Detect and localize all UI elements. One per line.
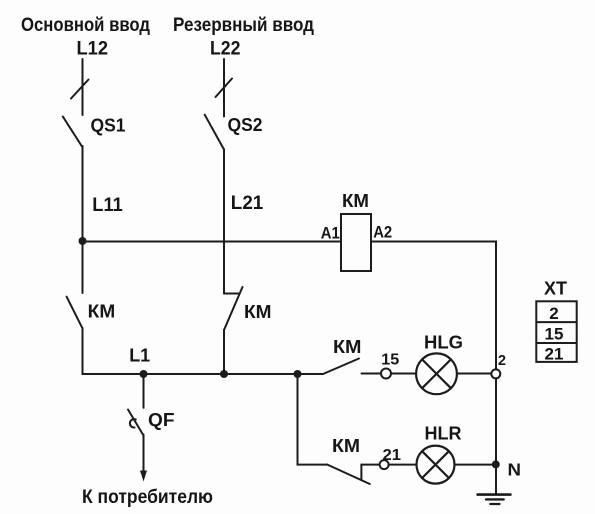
svg-text:2: 2 (549, 304, 558, 323)
coil KM (341, 214, 371, 271)
break mark on L12 (71, 80, 89, 99)
svg-text:N: N (508, 460, 522, 480)
svg-text:21: 21 (545, 344, 564, 363)
svg-text:L11: L11 (92, 195, 123, 216)
wire to terminal 15 (362, 373, 382, 375)
wire right rail below terminal 2 (495, 378, 497, 494)
wire lamp HLR to node N (455, 464, 497, 466)
node junction bus / lamp branch (294, 370, 302, 378)
wire coil feed A1 (83, 241, 342, 243)
contact KM (HLG, NO) blade (323, 359, 359, 375)
svg-text:А1: А1 (321, 223, 340, 242)
wire HLR feed (298, 464, 328, 466)
wire L21 (223, 150, 225, 294)
breaker QF hook (130, 419, 136, 427)
lamp HLR (417, 446, 455, 484)
node junction L1 / QF (140, 370, 148, 378)
wire lamp branch down (297, 374, 299, 465)
wire QF lower (143, 435, 145, 472)
svg-text:QS1: QS1 (91, 114, 126, 135)
svg-text:ХТ: ХТ (544, 279, 567, 299)
wire L22 lead (223, 59, 225, 117)
node N junction (492, 460, 500, 468)
switch QS2 blade (205, 115, 224, 150)
contact KM (HLR, NC) blade (327, 465, 369, 484)
svg-text:К потребителю: К потребителю (82, 486, 213, 508)
wire L11 (82, 146, 84, 293)
svg-text:КМ: КМ (88, 302, 116, 322)
lamp HLG (416, 353, 457, 394)
svg-text:L1: L1 (129, 345, 150, 366)
wire coil A2 to right rail (371, 242, 496, 370)
contact KM (HLR, NC) fixed bar (360, 465, 362, 480)
svg-text:КМ: КМ (333, 337, 362, 357)
arrow to consumer (140, 471, 147, 482)
svg-text:L21: L21 (231, 193, 264, 214)
terminal 15 circle (381, 369, 391, 379)
svg-text:15: 15 (545, 325, 564, 344)
break mark on L22 (216, 79, 233, 98)
switch QS1 blade (63, 117, 82, 147)
node junction L1 bus / middle branch (220, 370, 228, 378)
terminal 21 circle (380, 460, 389, 469)
wire terminal 15 to lamp (391, 373, 416, 375)
svg-text:L12: L12 (77, 38, 109, 60)
contact KM (left, NO) blade (67, 297, 83, 329)
wire QF upper (143, 374, 145, 408)
svg-text:2: 2 (498, 353, 506, 369)
contact KM (middle, NC) fixed tick (224, 293, 240, 295)
svg-text:КМ: КМ (332, 436, 360, 456)
wire L12 lead (82, 59, 84, 115)
breaker QF blade (128, 410, 144, 436)
wire lamp HLG to terminal 2 (457, 373, 491, 375)
svg-text:КМ: КМ (244, 302, 272, 322)
svg-text:HLG: HLG (424, 333, 463, 353)
svg-text:15: 15 (381, 351, 399, 368)
svg-text:КМ: КМ (342, 190, 369, 211)
svg-text:HLR: HLR (425, 423, 462, 443)
ground (478, 493, 511, 496)
wire to terminal 21 (361, 464, 379, 466)
wire to bus (223, 330, 225, 374)
wire to bus corner (83, 328, 324, 374)
terminal 2 circle (491, 369, 500, 378)
node junction L11/coil (79, 237, 87, 245)
contact KM (middle, NC) blade (224, 287, 243, 330)
wire terminal 21 to lamp (389, 464, 417, 466)
svg-text:Резервный ввод: Резервный ввод (173, 14, 314, 36)
svg-text:Основной ввод: Основной ввод (21, 14, 150, 36)
svg-text:QS2: QS2 (228, 114, 263, 135)
svg-text:А2: А2 (373, 222, 392, 241)
svg-text:L22: L22 (210, 38, 241, 60)
svg-text:21: 21 (383, 447, 402, 464)
svg-text:QF: QF (148, 409, 175, 430)
